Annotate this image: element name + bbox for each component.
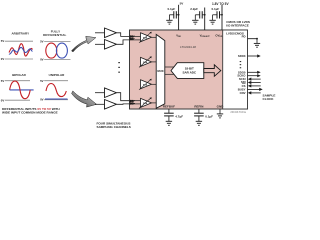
svg-text:0.1µF: 0.1µF [205,115,213,119]
ground C3 [209,20,215,24]
ground PD [254,43,260,47]
bipolar red sine [10,81,31,99]
wire A2 output to IN0- [117,40,130,44]
svg-text:0V: 0V [1,57,5,61]
svg-text:REFIN: REFIN [194,105,203,109]
wire gridline panel1 top [5,40,33,42]
svg-text:0.1µF: 0.1µF [211,7,219,11]
wire gridline panel2 bottom [44,59,70,61]
wire PGA1 to MUX [152,36,157,38]
op-amp A1 input wire [95,32,105,34]
PGA4 [139,97,152,108]
block arrow ADC to IO [204,65,221,77]
capacitor C2 2.2uF [190,7,204,20]
pin SCKI [239,77,261,81]
wire A4 output to IN3- [117,103,130,105]
svg-text:5V: 5V [1,39,5,43]
swoosh arrow top [72,36,96,52]
pin SDI [241,80,261,84]
svg-text:CLOCK: CLOCK [263,97,275,101]
svg-text:5V: 5V [180,1,184,5]
svg-text:GND: GND [217,105,225,109]
pin CS [242,84,261,88]
ground C4 [166,121,172,125]
svg-text:SAR ADC: SAR ADC [183,70,197,74]
svg-text:234418 TA01a: 234418 TA01a [230,111,246,114]
wire A3 output to IN3+ [117,93,130,101]
svg-text:MUX: MUX [157,69,163,73]
wire GND [219,109,221,114]
pin CNV [240,91,261,95]
unipolar blue common-mode line [45,98,68,100]
wire VDDLBYP supply [204,8,206,31]
wire PGA3 to MUX [152,83,157,85]
wire MUX to ADC upper [165,66,175,68]
svg-text:SDO3: SDO3 [238,54,246,58]
waveform differential blue ellipse trace [56,43,67,58]
wire gridline panel2 top [44,41,70,43]
IO interface block LVDS/CMOS [223,30,248,109]
svg-text:SAMPLING CHANNELS: SAMPLING CHANNELS [97,125,131,129]
sdo dots [240,61,242,68]
svg-text:CNV: CNV [240,91,246,95]
svg-text:PGA: PGA [143,83,148,86]
svg-text:0.1µF: 0.1µF [167,7,175,11]
wire VDD supply [178,5,180,30]
wire REFBUF [168,109,170,113]
pin SCKO [237,74,260,78]
op-amp A1 [105,28,117,38]
svg-text:LTC2344-18: LTC2344-18 [180,45,196,49]
wire PD to ground [248,39,258,44]
svg-text:PGA: PGA [143,61,148,64]
node junction VDD cap [178,14,180,16]
wire OVDD supply [221,5,223,30]
capacitor C4 47uF [164,113,183,121]
svg-text:5V: 5V [40,40,44,44]
op-amp A3 [105,88,117,98]
wire gridline panel1 bottom [5,58,33,60]
ground GND pin [217,114,223,118]
svg-text:UNIPOLAR: UNIPOLAR [49,73,66,77]
unipolar red sine [46,84,66,97]
wire A1 output to IN0+ [117,33,130,37]
svg-text:0V: 0V [1,98,5,102]
wire gridline panel3 top [5,80,30,82]
swoosh arrow bottom [72,91,97,107]
svg-text:5V: 5V [1,79,5,83]
ground C1 [166,20,172,24]
waveform differential red ellipse trace [46,43,57,58]
IC LTC2344-18 body [130,30,248,109]
svg-text:2.2µF: 2.2µF [190,7,198,11]
op-amp A2 [105,40,117,50]
op-amp A4 [105,100,117,110]
svg-text:ARBITRARY: ARBITRARY [12,31,30,35]
ground C5 [196,121,202,125]
bipolar blue common-mode line [10,89,34,91]
wire PGA4 to MUX [152,102,157,104]
wire PGA2 to MUX [152,61,157,63]
pin SDO3 [238,54,261,58]
svg-text:PD: PD [242,35,246,39]
svg-text:PGA: PGA [143,36,148,39]
op-amp A2 input wire [95,43,105,45]
wire MUX to ADC lower [165,73,175,75]
svg-text:REFBUF: REFBUF [163,105,175,109]
svg-text:4.7µF: 4.7µF [175,115,183,119]
wire gridline panel3 bottom [5,99,30,101]
wire IN0- to PGA1 [130,39,141,41]
node junction OVDD cap [221,14,223,16]
ADC 18-bit SAR [171,63,204,79]
svg-text:0V: 0V [40,98,44,102]
svg-text:PGA: PGA [143,102,148,105]
pin BUSY [238,87,263,91]
PGA2 [139,56,152,67]
capacitor C3 0.1uF [211,7,222,20]
capacitor C1 0.1uF [167,7,178,20]
node junction VDDLBYP cap [204,14,206,16]
waveform arbitrary red trace [9,44,33,56]
wire gridline panel4 bottom [44,99,68,101]
PGA1 [139,32,152,43]
capacitor C5 0.1uF [194,113,213,121]
waveform arbitrary blue trace [9,47,33,54]
wire gridline panel4 top [44,80,68,82]
PGA3 [139,79,152,90]
wire IN3- to PGA4 [130,103,141,105]
svg-text:1.8V TO 5V: 1.8V TO 5V [212,2,229,6]
channel dots external [118,62,120,73]
svg-text:0V: 0V [40,58,44,62]
wire REFIN [198,109,200,113]
op-amp A4 input wire [95,103,105,105]
wire IN3+ to PGA4 [130,100,141,102]
wire IN0+ to PGA1 [130,35,141,37]
pin SDO0 [238,70,261,74]
ground C2 [192,20,198,24]
op-amp A3 input wire [95,92,105,94]
svg-text:DIFFERENTIAL: DIFFERENTIAL [43,33,66,37]
svg-text:5V: 5V [40,79,44,83]
svg-text:WIDE INPUT COMMON MODE RANGE: WIDE INPUT COMMON MODE RANGE [2,110,58,114]
MUX [156,34,165,108]
svg-text:I/O INTERFACE: I/O INTERFACE [226,24,249,28]
svg-text:BIPOLAR: BIPOLAR [12,73,26,77]
